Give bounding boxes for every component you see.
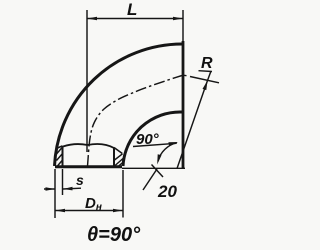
hatch right wall <box>115 154 124 167</box>
90 degree angle arc <box>158 143 177 162</box>
bore far-wall arc right <box>88 144 115 148</box>
centerline arc (dash-dot) <box>88 76 183 167</box>
leader 20 <box>143 169 157 190</box>
R label bar <box>199 70 213 73</box>
centerline extension top right <box>184 75 219 83</box>
Dn extension line right <box>122 170 124 218</box>
svg-text:θ=90°: θ=90° <box>87 224 141 246</box>
s dimension arrows <box>44 187 81 190</box>
svg-text:R: R <box>201 55 213 72</box>
right face extension above <box>182 10 184 41</box>
left wall inner edge <box>62 146 64 166</box>
right wall bevel edge <box>114 148 122 154</box>
Dn dimension line <box>55 210 123 212</box>
svg-text:20: 20 <box>157 182 177 201</box>
left wall bevel edge <box>58 146 63 148</box>
outer arc of elbow <box>55 44 183 166</box>
s extension line outer <box>54 169 56 218</box>
90 deg underline <box>133 143 177 146</box>
right end face <box>182 41 185 168</box>
tick at leader <box>152 165 164 178</box>
svg-text:L: L <box>127 0 137 19</box>
bottom face plane extension line <box>122 167 185 169</box>
inner arc of elbow <box>123 112 182 166</box>
R dimension line <box>177 71 211 169</box>
svg-text:s: s <box>76 172 84 188</box>
bore far-wall arc left <box>63 144 88 146</box>
s extension line inner <box>62 169 64 195</box>
svg-text:90°: 90° <box>136 131 160 148</box>
right wall inner edge <box>113 148 115 167</box>
dimension line L <box>87 18 183 20</box>
bottom end face <box>55 165 122 168</box>
L extension line left (on axis) <box>86 10 88 152</box>
hatch left wall <box>57 147 63 167</box>
